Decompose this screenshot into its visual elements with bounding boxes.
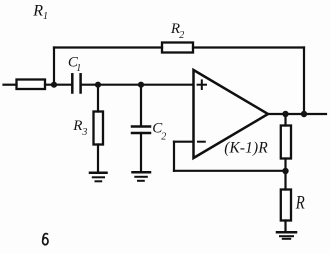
node junction dot at C2 bbox=[138, 82, 144, 88]
wire feedback bottom run bbox=[174, 170, 286, 172]
resistor R1 bbox=[17, 80, 46, 90]
wire C1 to op-amp + input bbox=[81, 84, 193, 86]
wire vertical from node A up bbox=[53, 48, 55, 85]
wire input lead bbox=[4, 84, 17, 86]
svg-text:2: 2 bbox=[161, 132, 166, 143]
ground under R3 bbox=[90, 172, 107, 175]
capacitor C2 bbox=[132, 125, 150, 128]
ground under C2 bbox=[133, 171, 151, 174]
wire (K-1)R to node B bbox=[284, 159, 286, 171]
wire node B to R bbox=[284, 171, 286, 190]
op-amp U1 bbox=[194, 70, 269, 158]
svg-text:R: R bbox=[32, 3, 43, 20]
op-amp plus sign bbox=[198, 84, 206, 86]
node A junction dot bbox=[51, 82, 57, 88]
svg-text:1: 1 bbox=[76, 63, 81, 74]
wire from R1 to C1 bbox=[45, 84, 72, 86]
wire R3 to ground bbox=[97, 145, 99, 173]
svg-text:R: R bbox=[295, 193, 305, 213]
wire output node to (K-1)R bbox=[284, 114, 286, 126]
wire top run to R2 bbox=[54, 46, 162, 48]
svg-text:3: 3 bbox=[81, 127, 87, 138]
resistor R2 bbox=[162, 43, 193, 53]
wire R to ground bbox=[284, 221, 286, 232]
resistor R3 bbox=[94, 112, 104, 145]
resistor (K-1)R bbox=[281, 126, 291, 159]
node junction dot output left bbox=[282, 111, 288, 117]
ground under R bbox=[277, 231, 296, 234]
capacitor C1 bbox=[71, 74, 74, 92]
op-amp minus sign bbox=[198, 141, 205, 143]
svg-text:R: R bbox=[72, 118, 82, 134]
wire feedback vertical left bbox=[173, 142, 175, 171]
label в bbox=[43, 234, 48, 245]
svg-text:1: 1 bbox=[43, 11, 48, 22]
wire C2 vertical bbox=[140, 85, 142, 126]
node B junction dot bbox=[282, 168, 288, 174]
node junction dot after C1 bbox=[95, 82, 101, 88]
wire vertical down to output bbox=[303, 48, 305, 115]
svg-text:(K-1)R: (K-1)R bbox=[224, 139, 268, 156]
svg-text:2: 2 bbox=[179, 30, 184, 41]
wire minus input bbox=[174, 141, 194, 143]
wire C2 to ground bbox=[140, 133, 142, 172]
resistor R bbox=[281, 190, 291, 221]
wire output bbox=[268, 113, 326, 115]
wire R3 vertical bbox=[97, 85, 99, 112]
node junction dot output right bbox=[301, 111, 307, 117]
wire from R2 to right corner bbox=[193, 46, 304, 48]
